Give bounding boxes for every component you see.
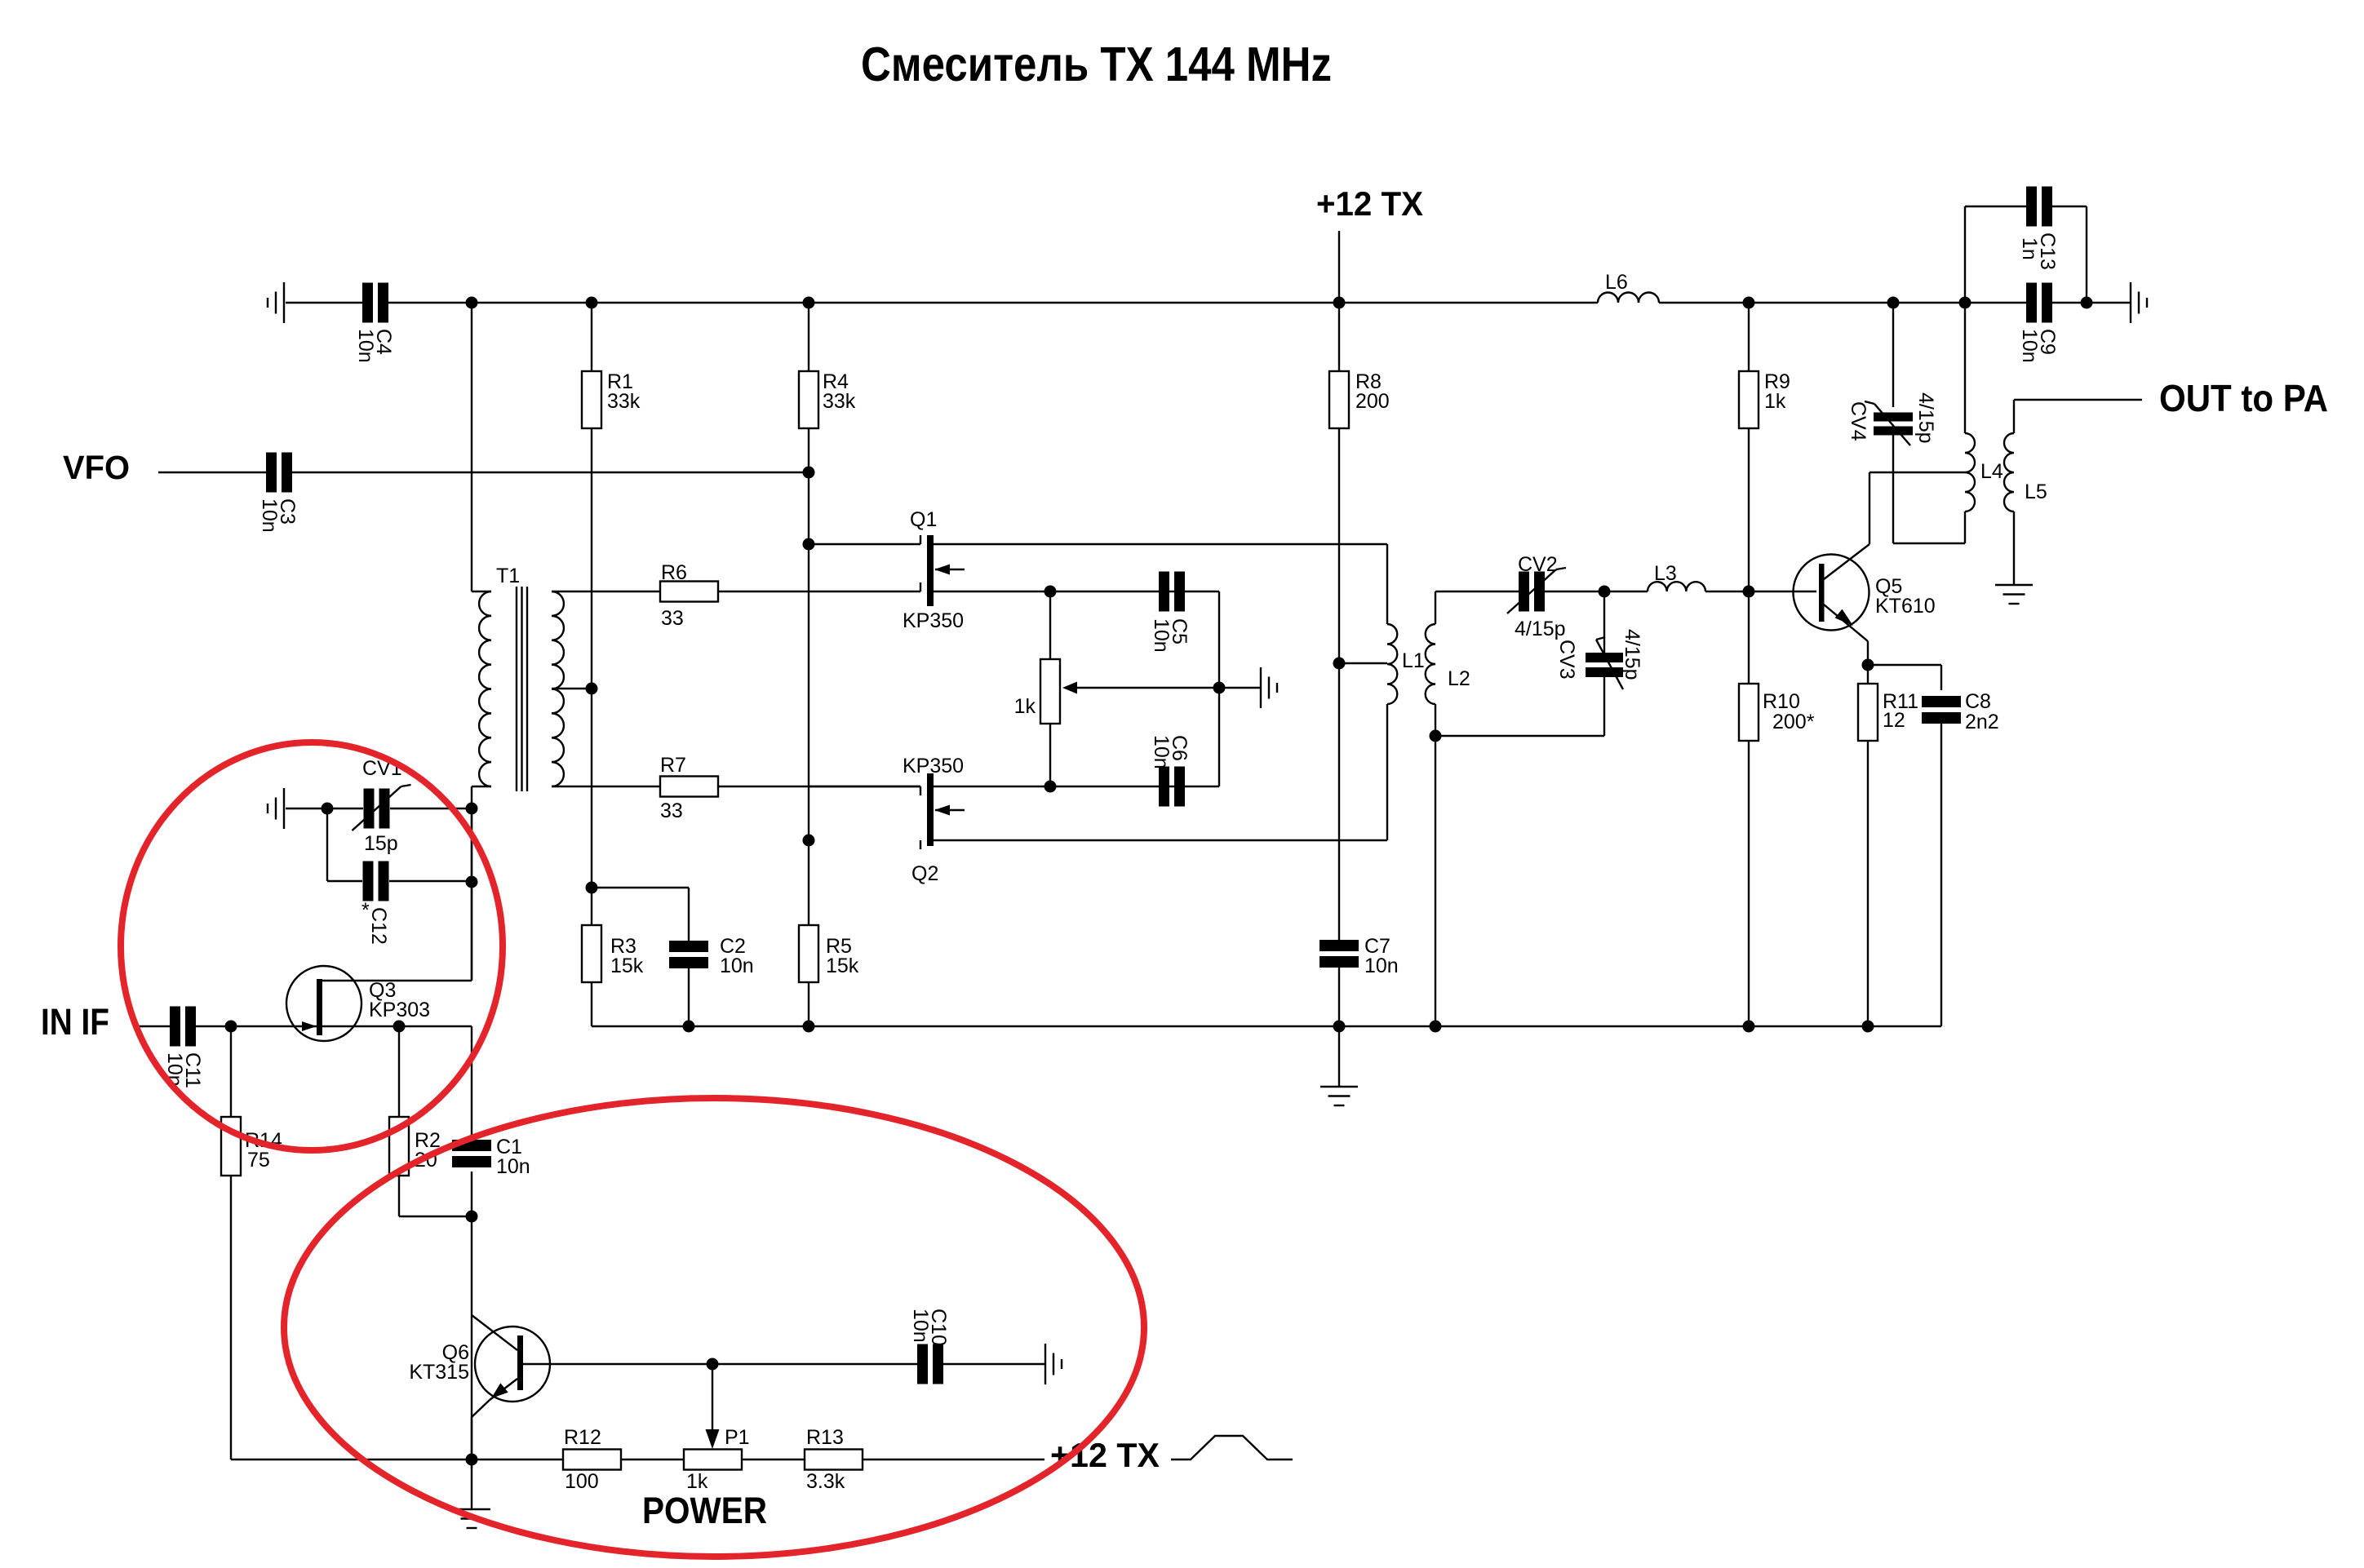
svg-text:4/15p: 4/15p [1621, 629, 1643, 680]
svg-text:10n: 10n [909, 1309, 932, 1343]
svg-text:1k: 1k [1014, 695, 1036, 718]
svg-text:P1: P1 [725, 1426, 750, 1449]
svg-text:33k: 33k [607, 390, 641, 413]
svg-text:3.3k: 3.3k [806, 1470, 845, 1493]
svg-text:33: 33 [660, 800, 683, 822]
svg-text:10n: 10n [258, 498, 281, 533]
svg-text:1k: 1k [1764, 390, 1786, 413]
svg-text:L6: L6 [1605, 271, 1628, 294]
svg-text:1n: 1n [2018, 237, 2041, 260]
svg-text:10n: 10n [354, 329, 377, 363]
svg-text:100: 100 [565, 1470, 599, 1493]
svg-text:C12: C12 [367, 907, 390, 945]
svg-text:33: 33 [661, 607, 684, 630]
svg-text:L3: L3 [1654, 562, 1677, 585]
svg-text:L5: L5 [2025, 481, 2047, 503]
svg-text:Смеситель TX 144 MHz: Смеситель TX 144 MHz [861, 38, 1332, 91]
svg-text:CV4: CV4 [1847, 401, 1869, 441]
svg-text:10n: 10n [1150, 735, 1173, 769]
svg-text:200*: 200* [1772, 711, 1815, 733]
svg-text:200: 200 [1355, 390, 1390, 413]
svg-text:CV3: CV3 [1555, 640, 1578, 680]
svg-text:10n: 10n [1364, 955, 1399, 977]
svg-text:4/15p: 4/15p [1914, 392, 1937, 444]
svg-text:KP350: KP350 [903, 755, 964, 777]
svg-text:10n: 10n [2018, 329, 2041, 363]
svg-text:15k: 15k [826, 955, 859, 977]
svg-text:R7: R7 [660, 754, 686, 777]
svg-text:Q1: Q1 [910, 508, 937, 531]
svg-text:2n2: 2n2 [1965, 711, 1999, 733]
svg-text:Q2: Q2 [911, 862, 938, 885]
svg-text:KP303: KP303 [369, 999, 430, 1021]
svg-text:KT315: KT315 [409, 1361, 469, 1384]
svg-text:4/15p: 4/15p [1515, 618, 1566, 640]
svg-text:10n: 10n [1150, 618, 1173, 653]
svg-text:10n: 10n [720, 955, 754, 977]
svg-text:L4: L4 [1980, 460, 2003, 483]
svg-text:R13: R13 [806, 1426, 844, 1449]
svg-text:75: 75 [247, 1149, 270, 1172]
svg-text:T1: T1 [496, 565, 520, 587]
svg-text:POWER: POWER [642, 1490, 767, 1531]
svg-text:R12: R12 [564, 1426, 601, 1449]
svg-text:15p: 15p [364, 832, 398, 855]
svg-text:CV2: CV2 [1518, 553, 1558, 576]
svg-text:33k: 33k [823, 390, 856, 413]
svg-text:VFO: VFO [63, 449, 130, 486]
svg-text:L2: L2 [1448, 667, 1470, 690]
svg-text:15k: 15k [610, 955, 644, 977]
svg-text:12: 12 [1883, 709, 1905, 732]
svg-text:+12 TX: +12 TX [1316, 184, 1423, 223]
svg-text:KP350: KP350 [903, 609, 964, 632]
svg-text:R10: R10 [1763, 690, 1800, 713]
svg-text:OUT to PA: OUT to PA [2159, 377, 2328, 419]
svg-text:KT610: KT610 [1875, 595, 1936, 618]
svg-text:L1: L1 [1402, 649, 1425, 672]
svg-text:R6: R6 [661, 561, 687, 584]
svg-text:IN IF: IN IF [41, 1001, 109, 1043]
svg-text:C8: C8 [1965, 690, 1991, 713]
svg-text:10n: 10n [496, 1155, 530, 1178]
